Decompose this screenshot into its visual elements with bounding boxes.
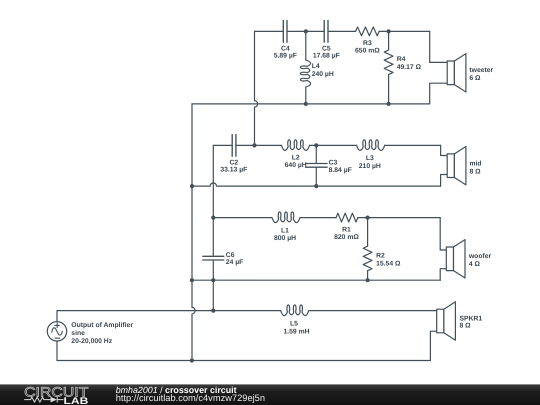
svg-text:33.13 µF: 33.13 µF <box>220 167 247 174</box>
node woofer input junction <box>211 216 215 220</box>
footer bar <box>0 384 540 405</box>
speaker mid <box>447 154 454 178</box>
svg-text:http://circuitlab.com/c4vmzw72: http://circuitlab.com/c4vmzw729ej5n <box>116 393 265 403</box>
capacitor C2 <box>232 135 236 157</box>
svg-text:L4: L4 <box>312 63 320 70</box>
svg-text:650 mΩ: 650 mΩ <box>355 48 380 55</box>
svg-text:L3: L3 <box>366 155 374 162</box>
resistor R2 <box>363 246 372 270</box>
node amp feed junction <box>211 309 215 313</box>
wire L4 branch <box>305 31 307 104</box>
wire bottom rail <box>57 360 430 362</box>
svg-text:1.59 mH: 1.59 mH <box>283 328 309 335</box>
svg-text:15.54 Ω: 15.54 Ω <box>376 260 401 267</box>
node mid return junction <box>190 184 194 188</box>
svg-text:C4: C4 <box>281 45 290 52</box>
speaker SPKR1 <box>437 309 444 333</box>
inductor L5 <box>281 305 309 316</box>
capacitor C4 <box>283 21 287 43</box>
node C2-L2 junction (tweeter feed) <box>252 143 256 147</box>
svg-text:R4: R4 <box>397 56 406 63</box>
svg-text:C2: C2 <box>229 159 238 166</box>
svg-text:mid: mid <box>470 161 482 168</box>
node R4 bottom junction <box>387 102 391 106</box>
inductor L2 <box>282 140 310 151</box>
svg-text:8 Ω: 8 Ω <box>470 168 482 175</box>
svg-text:woofer: woofer <box>468 253 492 260</box>
wire woofer speaker terminals <box>440 218 446 281</box>
svg-text:R3: R3 <box>363 40 372 47</box>
node tweeter-L4 junction <box>304 29 308 33</box>
node tweeter-R4 junction <box>387 29 391 33</box>
svg-text:820 mΩ: 820 mΩ <box>334 234 359 241</box>
resistor R4 <box>384 50 393 74</box>
svg-text:6 Ω: 6 Ω <box>469 75 481 82</box>
svg-text:C3: C3 <box>329 160 338 167</box>
inductor L4 <box>300 60 310 87</box>
node C6 woofer-return junction <box>211 278 215 282</box>
wire tweeter bottom rail <box>192 103 430 105</box>
wire R4 branch <box>388 31 390 104</box>
wire source terminals <box>56 311 58 361</box>
svg-text:C5: C5 <box>322 45 331 52</box>
node L2-C3 junction <box>314 143 318 147</box>
wire mid bottom rail (hop over C6 feed) <box>192 183 441 186</box>
speaker tweeter <box>447 61 454 85</box>
wire mid rail <box>213 144 440 146</box>
resistor R3 <box>356 27 380 36</box>
svg-text:240 µH: 240 µH <box>312 71 334 78</box>
svg-text:L1: L1 <box>281 227 289 234</box>
speaker woofer <box>446 247 453 271</box>
svg-text:tweeter: tweeter <box>469 67 493 74</box>
svg-text:SPKR1: SPKR1 <box>460 316 483 323</box>
wire vertical feed mid-to-woofer <box>212 145 214 310</box>
svg-text:R1: R1 <box>342 227 351 234</box>
wire tweeter terminals <box>430 31 448 104</box>
node R2 bottom junction <box>366 278 370 282</box>
svg-text:sine: sine <box>71 330 85 337</box>
svg-text:R2: R2 <box>376 253 385 260</box>
svg-text:210 µH: 210 µH <box>359 163 381 170</box>
capacitor C6 <box>203 256 224 260</box>
wire return bus (hop at amp rail) <box>192 104 195 361</box>
node return-bus bottom junction <box>190 358 194 362</box>
svg-text:17.68 µF: 17.68 µF <box>313 52 340 59</box>
wire SPKR1 bottom terminal <box>430 331 436 360</box>
capacitor C3 <box>306 164 328 168</box>
svg-text:Output of Amplifier: Output of Amplifier <box>71 322 133 329</box>
wire woofer bottom rail <box>192 279 440 281</box>
node R1-R2 junction <box>366 216 370 220</box>
wire C3 branch <box>315 145 317 186</box>
svg-text:8.84 µF: 8.84 µF <box>329 167 352 174</box>
wire woofer rail <box>213 217 440 219</box>
svg-text:4 Ω: 4 Ω <box>469 261 481 268</box>
svg-text:49.17 Ω: 49.17 Ω <box>397 64 422 71</box>
source V1 (Output of Amplifier) <box>47 322 66 341</box>
svg-text:24 µF: 24 µF <box>226 259 244 266</box>
logo schematic squiggle (resistor + diode) <box>24 397 63 403</box>
node woofer return junction <box>190 278 194 282</box>
wire amp rail <box>57 310 437 312</box>
svg-text:8 Ω: 8 Ω <box>460 323 472 330</box>
resistor R1 <box>336 213 358 222</box>
svg-text:LAB: LAB <box>64 396 89 405</box>
wire R2 branch <box>367 218 369 281</box>
inductor L3 <box>357 140 385 151</box>
svg-text:L2: L2 <box>292 154 300 161</box>
node C3 bottom junction <box>314 184 318 188</box>
wire top rail (tweeter input) <box>255 30 430 32</box>
svg-text:5.89 µF: 5.89 µF <box>274 52 297 59</box>
capacitor C5 <box>324 21 328 43</box>
svg-text:20-20,000 Hz: 20-20,000 Hz <box>71 338 112 345</box>
wire vertical feed tweeter-to-mid (hop at tweeter return) <box>255 31 258 145</box>
svg-text:800 µH: 800 µH <box>274 235 296 242</box>
svg-text:L5: L5 <box>290 320 298 327</box>
svg-text:640 µH: 640 µH <box>285 162 307 169</box>
node L4 bottom junction <box>304 102 308 106</box>
inductor L1 <box>272 212 300 223</box>
wire mid speaker terminals <box>441 145 448 186</box>
